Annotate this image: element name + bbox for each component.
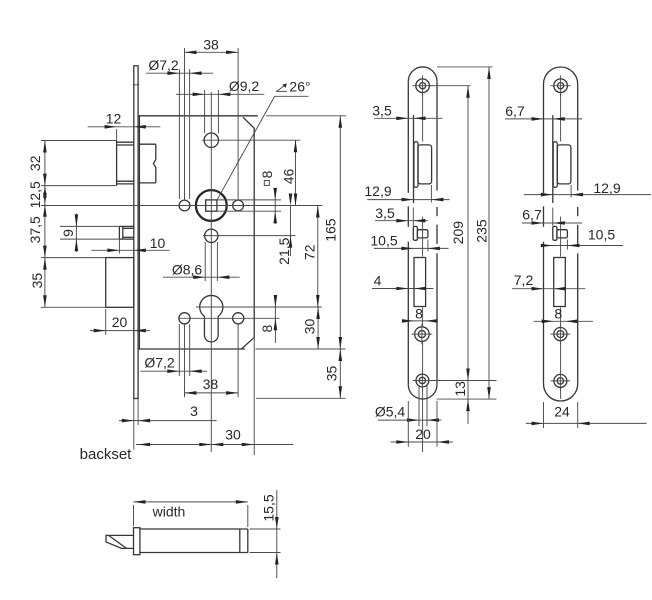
- svg-text:30: 30: [225, 426, 241, 442]
- svg-text:Ø8,6: Ø8,6: [172, 261, 203, 277]
- svg-text:8: 8: [259, 170, 275, 178]
- svg-text:12,9: 12,9: [364, 183, 391, 199]
- svg-text:8: 8: [259, 324, 275, 332]
- svg-text:20: 20: [415, 426, 431, 442]
- svg-text:4: 4: [374, 273, 382, 289]
- svg-text:width: width: [152, 504, 186, 520]
- svg-text:46: 46: [281, 169, 297, 185]
- svg-text:30: 30: [302, 319, 318, 335]
- svg-text:209: 209: [450, 221, 466, 245]
- svg-text:8: 8: [415, 306, 423, 322]
- svg-text:Ø7,2: Ø7,2: [144, 354, 175, 370]
- svg-text:35: 35: [324, 366, 340, 382]
- svg-text:21,5: 21,5: [276, 237, 292, 264]
- svg-text:12,9: 12,9: [593, 180, 620, 196]
- svg-text:3: 3: [190, 403, 198, 419]
- svg-text:165: 165: [323, 218, 339, 242]
- svg-text:Ø5,4: Ø5,4: [375, 403, 406, 419]
- svg-text:26°: 26°: [289, 79, 310, 95]
- svg-text:Ø7,2: Ø7,2: [148, 57, 179, 73]
- svg-text:10: 10: [150, 235, 166, 251]
- svg-text:8: 8: [554, 306, 562, 322]
- svg-text:backset: backset: [80, 446, 133, 463]
- svg-text:32: 32: [27, 155, 43, 171]
- svg-text:24: 24: [554, 403, 570, 419]
- svg-text:15,5: 15,5: [261, 494, 277, 521]
- svg-text:12: 12: [106, 111, 122, 127]
- svg-text:Ø9,2: Ø9,2: [229, 78, 260, 94]
- svg-text:20: 20: [112, 314, 128, 330]
- svg-text:38: 38: [203, 36, 219, 52]
- svg-text:6,7: 6,7: [522, 206, 542, 222]
- svg-text:72: 72: [302, 244, 318, 260]
- svg-text:12,5: 12,5: [27, 181, 43, 208]
- svg-text:7,2: 7,2: [514, 272, 534, 288]
- svg-text:37,5: 37,5: [27, 216, 43, 243]
- svg-text:38: 38: [203, 376, 219, 392]
- svg-text:235: 235: [474, 219, 490, 243]
- svg-text:9: 9: [60, 229, 76, 237]
- svg-text:3,5: 3,5: [372, 103, 392, 119]
- svg-text:10,5: 10,5: [370, 232, 397, 248]
- svg-text:6,7: 6,7: [505, 103, 525, 119]
- svg-text:3,5: 3,5: [375, 205, 395, 221]
- svg-text:35: 35: [29, 273, 45, 289]
- svg-text:13: 13: [452, 381, 468, 397]
- svg-text:10,5: 10,5: [588, 226, 615, 242]
